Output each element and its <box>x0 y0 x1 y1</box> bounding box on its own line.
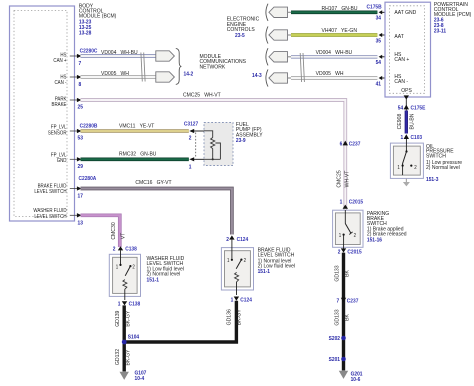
wire VD005 WH (BCM pin 8 to connector arrow) <box>81 75 156 79</box>
C3127 pin 2 number <box>189 135 192 141</box>
parking brake switch internals <box>343 210 353 249</box>
svg-text:CMC25: CMC25 <box>336 170 342 187</box>
svg-text:2: 2 <box>414 165 417 171</box>
BCM title label <box>79 3 117 36</box>
svg-text:53: 53 <box>78 135 84 141</box>
splice S201 <box>329 357 346 364</box>
wire GD136 BK-GY (brake fluid switch to S104) <box>124 301 236 342</box>
svg-text:LEVEL SWITCH: LEVEL SWITCH <box>34 189 67 195</box>
wire label BU-BN vertical <box>409 113 415 129</box>
twisted-pair marks right <box>300 53 304 82</box>
C3127 connector dashed line <box>195 133 197 159</box>
svg-text:GD133: GD133 <box>334 265 340 281</box>
svg-text:25: 25 <box>78 104 84 110</box>
connector label 2 C138 <box>113 246 137 252</box>
BCM pin 8 arrow <box>70 75 82 79</box>
svg-text:C103: C103 <box>411 135 423 141</box>
svg-text:23-5: 23-5 <box>235 33 245 39</box>
svg-text:35: 35 <box>376 38 382 44</box>
oil pressure switch box <box>390 143 423 178</box>
wire label CE908 vertical <box>397 114 403 130</box>
PCM pin label OPS <box>401 88 412 94</box>
wire label VD004 WH-BU <box>101 50 138 56</box>
wire label GD133 vertical lower <box>334 309 340 325</box>
oil pressure switch label <box>426 144 462 183</box>
svg-text:CAN -: CAN - <box>54 80 66 86</box>
powertrain control module (PCM) box <box>385 2 431 97</box>
wire VMC11 YE-VT (BCM pin 53 to C3127 pin 2) <box>81 129 189 133</box>
connector label C2280A <box>79 176 97 182</box>
off-page arrow VH407 <box>269 30 292 40</box>
svg-text:BK-GY: BK-GY <box>236 309 242 325</box>
svg-text:CMC16 GY-VT: CMC16 GY-VT <box>135 180 172 186</box>
wire label GD136 vertical <box>226 309 232 325</box>
svg-text:7: 7 <box>336 298 339 304</box>
wire GD133 BK (parking brake switch to G201) <box>342 253 345 371</box>
parking brake switch box <box>333 210 363 247</box>
wire label GD139 vertical <box>115 311 121 327</box>
oil pressure switch internals <box>402 139 413 175</box>
wire label GD132 vertical <box>115 349 121 365</box>
PCM pin label HS CAN+ <box>394 52 409 63</box>
wire label BK vertical upper <box>344 270 350 277</box>
PCM pin 41 arrow <box>379 76 385 80</box>
wire RH107 GN-BU (to PCM AAT GND) <box>291 10 377 14</box>
brace for off-page arrow VH407 <box>266 26 268 43</box>
PCM pin label AAT GND <box>394 10 416 16</box>
brace for network arrows <box>176 48 182 84</box>
svg-text:VD005 WH: VD005 WH <box>101 71 129 77</box>
brace for off-page arrow RH107 <box>266 4 268 21</box>
BCM pin label FP_LVL SENSOR <box>48 124 67 136</box>
BCM pin numbers <box>78 61 84 227</box>
svg-text:C237: C237 <box>347 298 359 304</box>
svg-text:CAN -: CAN - <box>394 79 408 85</box>
svg-text:1: 1 <box>339 232 342 238</box>
svg-text:1: 1 <box>189 164 192 170</box>
oil pressure switch terminal labels <box>397 165 417 171</box>
svg-text:AAT: AAT <box>394 34 404 40</box>
wire CMC30 VT (BCM pin 13 to washer fluid level switch) <box>81 215 120 247</box>
svg-text:BK-GY: BK-GY <box>125 310 131 326</box>
page ref 14-2 <box>184 71 194 77</box>
svg-text:SENSOR: SENSOR <box>48 130 67 136</box>
svg-text:41: 41 <box>376 81 382 87</box>
svg-text:2) Normal level: 2) Normal level <box>426 165 460 171</box>
svg-text:10-4: 10-4 <box>135 376 145 382</box>
svg-text:NETWORK: NETWORK <box>200 64 226 70</box>
wire label CMC30 vertical <box>111 222 117 239</box>
svg-text:1: 1 <box>231 297 234 303</box>
svg-text:GND: GND <box>57 158 67 164</box>
connector C2015 arrow (pin 1) <box>343 205 348 209</box>
wire label CMC25 WH-VT <box>183 92 221 98</box>
off-page connector arrow (VD004 to network) <box>156 51 175 61</box>
svg-text:23-11: 23-11 <box>434 28 446 34</box>
wire label BK-GY vertical lower-left <box>125 349 131 365</box>
svg-text:13-28: 13-28 <box>79 30 92 36</box>
wire label WH-VT vertical <box>344 170 350 188</box>
ground G201 <box>339 371 363 384</box>
BCM pin label FP_LVL GND <box>51 152 67 164</box>
washer fluid switch terminal labels <box>116 264 135 270</box>
brake fluid level switch internals <box>231 240 243 295</box>
svg-text:VD004 WH-BU: VD004 WH-BU <box>101 50 138 56</box>
PCM pin 54 arrow <box>379 55 385 59</box>
svg-text:151-16: 151-16 <box>367 237 382 243</box>
svg-text:BK-GY: BK-GY <box>125 349 131 365</box>
svg-text:14-3: 14-3 <box>252 73 262 79</box>
svg-text:VH407 YE-GN: VH407 YE-GN <box>322 28 358 34</box>
svg-text:FP_LVL: FP_LVL <box>51 152 67 158</box>
PCM pin number 54 <box>376 60 382 66</box>
PCM OPS pin arrow (down) <box>404 95 409 99</box>
svg-text:CMC30: CMC30 <box>111 222 117 239</box>
svg-text:1: 1 <box>118 301 121 307</box>
svg-text:VT: VT <box>120 232 126 239</box>
svg-text:7: 7 <box>79 61 82 67</box>
ground G107 <box>120 370 147 382</box>
wire label BK vertical lower <box>344 314 350 321</box>
washer fluid level switch internals <box>119 250 131 300</box>
BCM pin label BRAKE FLUID LEVEL SWITCH <box>34 183 67 195</box>
connector C124 arrow (pin 2) <box>229 235 234 239</box>
svg-text:C2280C: C2280C <box>80 48 98 54</box>
svg-text:FP_LVL: FP_LVL <box>51 124 67 130</box>
connector C138 arrow (pin 2) <box>118 246 123 250</box>
wire label VT vertical <box>120 232 126 239</box>
wire label RH107 GN-BU <box>322 6 358 12</box>
brake fluid level switch label <box>258 247 295 275</box>
svg-text:2: 2 <box>338 249 341 255</box>
connector label 1 C2015 <box>340 199 364 205</box>
svg-text:HS: HS <box>60 52 66 58</box>
svg-text:2: 2 <box>189 135 192 141</box>
svg-text:OPS: OPS <box>401 88 412 94</box>
svg-text:C138: C138 <box>125 246 137 252</box>
svg-text:6: 6 <box>340 141 343 147</box>
brace for off-page arrow VD005 right <box>266 69 268 86</box>
svg-text:C237: C237 <box>349 141 361 147</box>
svg-text:BK: BK <box>344 314 350 321</box>
off-page arrow VD004 right <box>269 52 292 62</box>
wire GD139 BK-GY (washer switch to S104) <box>122 305 125 371</box>
connector label 2 C124 <box>226 237 248 243</box>
svg-text:GD139: GD139 <box>115 311 121 327</box>
svg-text:13: 13 <box>78 220 84 226</box>
PCM pin number 35 <box>376 38 382 44</box>
svg-text:HS: HS <box>60 74 66 80</box>
off-page connector arrow (VD005 to network) <box>156 72 175 82</box>
svg-text:VD005 WH: VD005 WH <box>316 71 344 77</box>
connector C175E arrow <box>404 105 409 110</box>
svg-text:2: 2 <box>132 264 135 270</box>
svg-text:151-1: 151-1 <box>258 269 271 275</box>
svg-text:34: 34 <box>376 15 382 21</box>
connector C124 arrow (pin 1, down) <box>234 297 239 301</box>
svg-text:BK: BK <box>344 270 350 277</box>
wire label CMC16 GY-VT <box>135 180 172 186</box>
wire VD005 WH (to PCM HS CAN-) <box>291 76 377 80</box>
wire label VD004 WH-BU right <box>316 50 353 56</box>
fuel pump (FP) assembly box <box>204 123 233 166</box>
BCM pin label HS CAN- <box>54 74 66 86</box>
off-page arrow RH107 <box>269 7 292 17</box>
connector label C175B <box>367 4 382 10</box>
C3127 pin 2 arrow <box>189 129 204 133</box>
connector label C2280C <box>80 48 98 54</box>
svg-text:CMC25 WH-VT: CMC25 WH-VT <box>183 92 221 98</box>
svg-text:BRAKE: BRAKE <box>52 102 67 108</box>
svg-text:S202: S202 <box>329 336 340 342</box>
wire CMC25 WH-VT (BCM pin 25 to parking brake switch) <box>81 100 346 210</box>
BCM pin 7 arrow <box>70 54 82 58</box>
brake fluid switch terminal labels <box>227 258 246 264</box>
PCM pin label AAT <box>394 34 404 40</box>
svg-text:GD133: GD133 <box>334 309 340 325</box>
svg-text:17: 17 <box>78 193 84 199</box>
svg-text:1: 1 <box>340 199 343 205</box>
connector label 1 C124 <box>231 297 252 303</box>
svg-text:C2280A: C2280A <box>79 176 97 182</box>
splice S202 <box>329 336 346 343</box>
fuel pump assembly label <box>236 122 263 144</box>
svg-text:VD004 WH-BU: VD004 WH-BU <box>316 50 353 56</box>
splice S104 <box>122 334 139 344</box>
wire CMC16 GY-VT (BCM pin 17 to brake fluid level switch) <box>81 189 232 235</box>
connector C103 arrow <box>404 134 409 139</box>
label ELECTRONIC ENGINE CONTROLS <box>227 16 260 39</box>
oil pressure switch case ground <box>403 178 410 186</box>
svg-text:S104: S104 <box>128 334 139 340</box>
BCM pin 13 arrow <box>70 213 82 217</box>
C3127 pin 1 number <box>189 164 192 170</box>
svg-text:S201: S201 <box>329 357 340 363</box>
PCM pin 35 arrow <box>379 33 385 37</box>
svg-text:1: 1 <box>116 264 119 270</box>
svg-text:C3127: C3127 <box>184 121 198 127</box>
label MODULE COMMUNICATIONS NETWORK <box>200 54 247 71</box>
svg-text:GD132: GD132 <box>115 349 121 365</box>
svg-text:C2280B: C2280B <box>80 123 98 129</box>
svg-text:LEVEL SWITCH: LEVEL SWITCH <box>34 214 67 220</box>
wire label VD005 WH <box>101 71 129 77</box>
connector C237 arrow (pin 7, down) <box>341 298 346 303</box>
svg-text:C2015: C2015 <box>349 199 363 205</box>
wire VH407 YE-GN (to PCM AAT) <box>291 33 377 37</box>
svg-text:WH-VT: WH-VT <box>344 170 350 188</box>
connector C237 arrow (pin 6) <box>343 141 348 146</box>
parking brake switch label <box>367 211 407 244</box>
PCM pin number 34 <box>376 15 382 21</box>
svg-text:RMC32 GN-BU: RMC32 GN-BU <box>119 151 157 157</box>
svg-text:2: 2 <box>226 237 229 243</box>
svg-text:CAN +: CAN + <box>394 57 409 63</box>
svg-text:8: 8 <box>79 82 82 88</box>
wire VD004 WH-BU (BCM pin 7 to connector arrow) <box>81 54 156 58</box>
svg-text:C2015: C2015 <box>347 249 361 255</box>
parking brake switch terminal labels <box>339 232 357 238</box>
wire VD004 WH-BU (to PCM HS CAN+) <box>291 55 377 59</box>
svg-text:151-1: 151-1 <box>147 277 160 283</box>
BCM pin label HS CAN+ <box>53 52 66 64</box>
svg-text:C175E: C175E <box>411 105 426 111</box>
svg-text:C138: C138 <box>129 301 141 307</box>
wire label VMC11 YE-VT <box>119 123 155 129</box>
C3127 pin 1 arrow <box>189 157 204 161</box>
BCM pin 17 arrow <box>70 186 82 190</box>
wire label GD133 vertical upper <box>334 265 340 281</box>
svg-text:BU-BN: BU-BN <box>409 113 415 129</box>
brace for off-page arrow VD004 right <box>266 48 268 65</box>
svg-text:WASHER FLUID: WASHER FLUID <box>33 208 67 214</box>
connector label 1 C138 <box>118 301 141 307</box>
connector C138 arrow (pin 1, down) <box>122 301 127 305</box>
svg-text:C124: C124 <box>237 237 249 243</box>
svg-text:54: 54 <box>398 105 404 111</box>
wire label VH407 YE-GN <box>322 28 358 34</box>
washer fluid level switch label <box>147 256 185 284</box>
svg-text:10-6: 10-6 <box>351 377 361 383</box>
svg-text:GD136: GD136 <box>226 309 232 325</box>
svg-text:54: 54 <box>376 60 382 66</box>
twisted-pair marks left <box>141 53 145 82</box>
svg-text:PARK: PARK <box>55 96 67 102</box>
off-page arrow VD005 right <box>269 73 292 83</box>
connector label C2280B <box>80 123 98 129</box>
BCM pin 29 arrow <box>70 157 82 161</box>
svg-text:C175B: C175B <box>367 4 382 10</box>
BCM pin label WASHER FLUID LEVEL SWITCH <box>33 208 67 220</box>
wire label CMC25 vertical <box>336 170 342 187</box>
wire RMC32 GN-BU (BCM pin 29 to C3127 pin 1) <box>81 157 189 161</box>
svg-text:1: 1 <box>227 258 230 264</box>
BCM pin 53 arrow <box>70 129 82 133</box>
PCM pin 34 arrow <box>379 10 385 14</box>
connector label 54 C175E <box>398 105 426 111</box>
svg-text:2: 2 <box>354 232 357 238</box>
connector label 6 C237 <box>340 141 361 147</box>
svg-text:CE908: CE908 <box>397 114 403 130</box>
svg-text:151-3: 151-3 <box>426 177 439 183</box>
svg-text:14-2: 14-2 <box>184 71 194 77</box>
svg-text:1: 1 <box>400 135 403 141</box>
svg-text:23-9: 23-9 <box>236 138 246 144</box>
svg-text:29: 29 <box>78 164 84 170</box>
page ref 14-3 <box>252 73 262 79</box>
svg-text:BRAKE FLUID: BRAKE FLUID <box>38 183 67 189</box>
PCM pin number 41 <box>376 81 382 87</box>
BCM pin label PARK BRAKE <box>52 96 68 108</box>
svg-text:VMC11 YE-VT: VMC11 YE-VT <box>119 123 155 129</box>
svg-text:RH107 GN-BU: RH107 GN-BU <box>322 6 358 12</box>
wire label BK-GY vertical upper-left <box>125 310 131 326</box>
wire label RMC32 GN-BU <box>119 151 157 157</box>
svg-text:2: 2 <box>113 246 116 252</box>
wire label BK-GY vertical <box>236 309 242 325</box>
svg-text:C124: C124 <box>240 297 252 303</box>
fuel level sender internals <box>204 131 220 161</box>
BCM pin 25 arrow <box>70 98 82 102</box>
body control module (BCM) box <box>10 6 75 221</box>
brake fluid level switch box <box>221 248 253 290</box>
washer fluid level switch box <box>109 254 140 296</box>
svg-text:2: 2 <box>244 258 247 264</box>
connector label 2 C2015 <box>338 249 362 255</box>
wire CE908 BU-BN (PCM OPS to oil pressure switch) <box>405 99 407 111</box>
PCM pin label HS CAN- <box>394 74 408 85</box>
PCM title label <box>434 2 472 35</box>
svg-text:CAN +: CAN + <box>53 58 66 64</box>
svg-text:1: 1 <box>397 165 400 171</box>
connector label C3127 <box>184 121 198 127</box>
connector label 7 C237 <box>336 298 358 304</box>
wire label VD005 WH right <box>316 71 344 77</box>
svg-text:AAT GND: AAT GND <box>394 10 416 16</box>
connector C2015 arrow (pin 2, down) <box>341 248 346 252</box>
connector label 1 C103 <box>400 135 422 141</box>
